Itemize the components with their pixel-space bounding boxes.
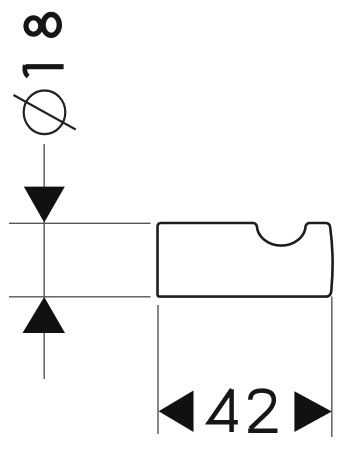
dimension text digit 4 <box>209 389 238 432</box>
digit 8 of Ø18 (rotated) <box>26 15 59 36</box>
hook body outline <box>158 223 333 297</box>
arrowhead top (pointing down) <box>24 187 65 223</box>
dimension text digit 2 <box>248 391 277 431</box>
arrowhead bottom (pointing up) <box>23 297 66 333</box>
vertical dimension line (18) <box>43 144 45 379</box>
extension line right (42 dim) <box>331 297 333 438</box>
diameter symbol Ø (circle) <box>24 91 66 135</box>
extension line left (42 dim) <box>157 305 159 434</box>
digit 1 of Ø18 (rotated) <box>25 65 64 77</box>
extension line bottom (object bottom edge extended) <box>9 296 151 298</box>
arrowhead left (pointing left) <box>159 391 194 433</box>
extension line top (object top edge extended) <box>9 222 151 224</box>
arrowhead right (pointing right) <box>294 391 331 432</box>
diameter symbol Ø (slash) <box>14 95 76 130</box>
